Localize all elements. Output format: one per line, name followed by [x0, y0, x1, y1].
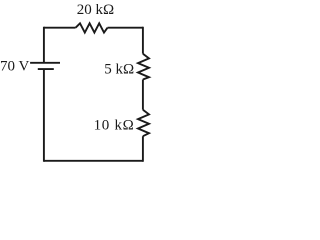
svg-text:20 kΩ: 20 kΩ: [77, 2, 114, 18]
svg-text:10 kΩ: 10 kΩ: [94, 118, 135, 134]
svg-text:5 kΩ: 5 kΩ: [104, 61, 134, 77]
svg-text:70 V: 70 V: [0, 58, 29, 74]
